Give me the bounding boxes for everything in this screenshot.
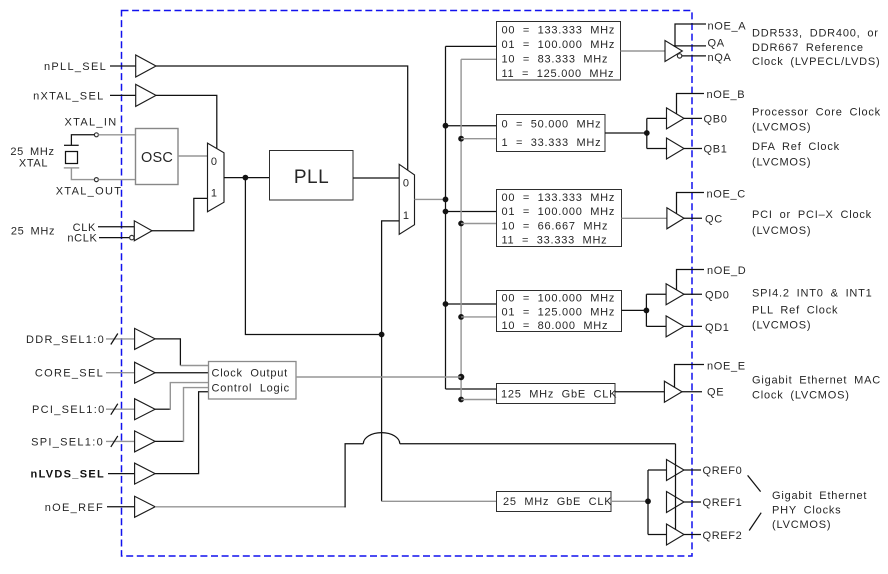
bus slash DDR_SEL — [111, 334, 118, 345]
pad XTAL_OUT — [94, 178, 98, 182]
svg-text:10 = 80.000 MHz: 10 = 80.000 MHz — [502, 320, 609, 332]
svg-text:DDR667 Reference: DDR667 Reference — [752, 42, 864, 54]
note SPI ref clock — [752, 288, 873, 332]
svg-text:PLL: PLL — [294, 167, 329, 188]
buffer QREF0 — [667, 460, 685, 481]
junction ref clock node — [243, 175, 249, 181]
wire DDR_SEL stub — [106, 338, 135, 340]
buffer QB0 — [667, 108, 685, 129]
wire CORE_SEL stub — [106, 372, 135, 374]
svg-text:00 = 100.000 MHz: 00 = 100.000 MHz — [502, 293, 616, 305]
note gigabit PHY clocks — [772, 490, 867, 531]
junction on bypass bus — [379, 332, 385, 338]
wire clock bus to divider D — [446, 303, 498, 305]
svg-text:01 = 125.000 MHz: 01 = 125.000 MHz — [502, 306, 616, 318]
svg-text:SPI_SEL1:0: SPI_SEL1:0 — [31, 436, 104, 448]
buffer QC — [667, 208, 684, 229]
note gigabit MAC clock — [752, 374, 881, 401]
svg-text:25 MHz: 25 MHz — [10, 146, 54, 158]
note DFA ref clock — [752, 141, 840, 168]
wire CLK buffer to ref-mux input 1 — [152, 198, 208, 230]
wire QA out — [674, 45, 707, 47]
svg-text:QREF2: QREF2 — [703, 530, 743, 542]
divider table E 125 MHz GbE CLK — [497, 384, 618, 404]
wire select bus to divider A — [461, 58, 497, 60]
chip boundary dashed border — [122, 11, 693, 557]
svg-text:00 = 133.333 MHz: 00 = 133.333 MHz — [502, 192, 616, 204]
wire nOE_REF stub — [107, 506, 135, 508]
wire nOE_C — [677, 193, 705, 214]
wire PLL to output-mux input 0 — [353, 177, 399, 179]
buffer QA/nQA — [665, 41, 682, 62]
svg-text:nPLL_SEL: nPLL_SEL — [44, 61, 107, 73]
svg-text:QB0: QB0 — [704, 113, 728, 125]
note PCI clock — [752, 209, 872, 237]
svg-text:nOE_C: nOE_C — [707, 188, 746, 200]
svg-text:Gigabit Ethernet MAC: Gigabit Ethernet MAC — [752, 374, 881, 386]
buffer CLK/nCLK — [134, 221, 152, 241]
divider table F 25 MHz GbE CLK — [497, 492, 613, 512]
svg-text:Processor Core Clock: Processor Core Clock — [752, 107, 881, 119]
junction clock bus mux feed — [443, 197, 449, 203]
wire clock bus to divider A — [446, 45, 498, 47]
svg-text:(LVCMOS): (LVCMOS) — [752, 225, 811, 237]
wire QREF2 out — [684, 534, 701, 536]
svg-text:25 MHz: 25 MHz — [11, 225, 55, 237]
divider table A — [497, 22, 621, 81]
wire clock bus to divider C — [446, 211, 498, 213]
wire XTAL_IN to crystal — [71, 135, 94, 146]
wire divider A to buffer QA — [621, 50, 666, 52]
inversion bubble nCLK — [130, 235, 134, 239]
wire ref clock down to bypass bus — [245, 178, 381, 335]
svg-text:CORE_SEL: CORE_SEL — [35, 368, 104, 380]
pad XTAL_IN — [94, 133, 98, 137]
svg-text:00 = 133.333 MHz: 00 = 133.333 MHz — [502, 24, 616, 36]
PLL U1 — [270, 151, 354, 201]
svg-text:1: 1 — [211, 188, 218, 200]
wire SPI_SEL stub — [106, 440, 135, 442]
svg-text:DDR533, DDR400, or: DDR533, DDR400, or — [752, 27, 879, 39]
wire PCI_SEL stub — [106, 408, 135, 410]
svg-text:QA: QA — [708, 38, 725, 50]
wire XTAL_OUT to OSC — [98, 179, 135, 181]
wire divider C to buffer QC — [622, 217, 667, 219]
junction select bus C — [458, 221, 464, 227]
junction select bus D — [458, 314, 464, 320]
svg-text:Clock Output: Clock Output — [212, 368, 288, 380]
svg-text:nOE_A: nOE_A — [708, 21, 747, 33]
svg-text:QB1: QB1 — [704, 144, 728, 156]
wire nCLK stub — [99, 237, 129, 239]
wire OSC to ref-mux input 0 — [178, 155, 208, 157]
svg-text:QD0: QD0 — [705, 289, 730, 301]
wire nOE_A — [675, 24, 706, 47]
svg-text:(LVCMOS): (LVCMOS) — [752, 156, 811, 168]
wire nQA out — [682, 55, 706, 57]
junction select bus B — [458, 136, 464, 142]
buffer PCI_SEL — [135, 399, 156, 420]
svg-text:0: 0 — [403, 178, 410, 190]
svg-text:PCI_SEL1:0: PCI_SEL1:0 — [32, 404, 106, 416]
wire divider F to QREF buffers — [611, 500, 648, 502]
svg-text:10 = 83.333 MHz: 10 = 83.333 MHz — [502, 53, 609, 65]
buffer QD1 — [666, 316, 684, 337]
buffer CORE_SEL — [135, 362, 156, 383]
svg-text:XTAL: XTAL — [19, 157, 48, 169]
wire QC out — [684, 217, 702, 219]
wire XTAL_IN to OSC — [98, 134, 135, 136]
svg-text:nXTAL_SEL: nXTAL_SEL — [33, 90, 104, 102]
buffer QB1 — [667, 138, 685, 159]
svg-text:10 = 66.667 MHz: 10 = 66.667 MHz — [502, 220, 609, 232]
svg-text:1: 1 — [403, 210, 410, 222]
bus slash PCI_SEL — [111, 404, 118, 415]
wire nLVDS_SEL stub — [108, 473, 135, 475]
divider table B — [497, 115, 606, 152]
buffer DDR_SEL — [135, 328, 156, 349]
svg-text:DDR_SEL1:0: DDR_SEL1:0 — [26, 334, 105, 346]
svg-text:11 = 33.333 MHz: 11 = 33.333 MHz — [502, 235, 608, 247]
svg-text:nOE_E: nOE_E — [707, 360, 746, 372]
wire ref-mux output to PLL — [224, 177, 270, 179]
wire select bus to divider B — [461, 138, 497, 140]
svg-text:XTAL_OUT: XTAL_OUT — [56, 186, 122, 198]
wire nPLL_SEL stub — [110, 65, 136, 67]
wire clock bus to divider E — [446, 388, 498, 390]
svg-text:SPI4.2 INT0 & INT1: SPI4.2 INT0 & INT1 — [752, 288, 873, 300]
svg-text:11 = 125.000 MHz: 11 = 125.000 MHz — [502, 68, 615, 80]
svg-text:QREF1: QREF1 — [703, 497, 743, 509]
wire QD0 out — [684, 293, 702, 295]
junction select bus E — [458, 397, 464, 403]
wire nOE_REF down back of QREF buffers — [675, 444, 677, 530]
buffer QE — [664, 381, 682, 402]
svg-text:(LVCMOS): (LVCMOS) — [752, 320, 811, 332]
svg-text:QD1: QD1 — [705, 322, 730, 334]
brace QREF group lower — [749, 513, 761, 531]
svg-text:Gigabit Ethernet: Gigabit Ethernet — [772, 490, 867, 502]
wire CLK stub — [98, 226, 134, 228]
wire nOE_REF run — [155, 506, 346, 508]
note DDR reference clock — [752, 27, 880, 68]
ref mux (XTAL/CLK select) — [208, 143, 225, 212]
wire divider B to QB buffers — [605, 132, 647, 134]
wire QD1 out — [684, 325, 702, 327]
junction clock bus D — [443, 301, 449, 307]
wire clock bus to divider B — [446, 125, 498, 127]
wire CORE_SEL to control logic — [155, 372, 209, 374]
wire control logic to select bus — [296, 376, 461, 378]
svg-text:nLVDS_SEL: nLVDS_SEL — [31, 469, 105, 481]
wire select bus to divider C — [461, 223, 497, 225]
svg-text:nQA: nQA — [708, 52, 732, 64]
wire SPI_SEL to control logic — [155, 440, 183, 442]
svg-text:OSC: OSC — [141, 150, 173, 166]
svg-text:PCI or PCI–X Clock: PCI or PCI–X Clock — [752, 209, 872, 221]
svg-text:PHY Clocks: PHY Clocks — [772, 505, 841, 517]
junction select bus control feed — [458, 374, 464, 380]
wire hop over bypass bus — [363, 433, 400, 444]
wire crystal to XTAL_OUT — [71, 168, 94, 180]
svg-text:Clock (LVCMOS): Clock (LVCMOS) — [752, 389, 850, 401]
svg-text:nOE_B: nOE_B — [707, 89, 746, 101]
wire nOE_D — [677, 270, 705, 291]
buffer QREF2 — [667, 524, 685, 545]
wire QREF0 out — [684, 469, 701, 471]
control block Clock Output Control Logic — [209, 362, 297, 400]
svg-text:Control Logic: Control Logic — [212, 382, 290, 394]
junction clock bus B — [443, 123, 449, 129]
buffer QREF1 — [667, 492, 685, 513]
svg-text:01 = 100.000 MHz: 01 = 100.000 MHz — [502, 206, 616, 218]
svg-text:XTAL_IN: XTAL_IN — [65, 117, 118, 129]
svg-text:(LVCMOS): (LVCMOS) — [772, 519, 831, 531]
crystal 25 MHz XTAL — [64, 144, 79, 146]
svg-text:QC: QC — [705, 213, 723, 225]
svg-text:0 = 50.000 MHz: 0 = 50.000 MHz — [502, 119, 602, 131]
svg-text:25 MHz GbE CLK: 25 MHz GbE CLK — [503, 496, 612, 508]
svg-text:nOE_REF: nOE_REF — [45, 502, 104, 514]
wire nOE_REF to QREF buffers — [400, 443, 676, 445]
divider table D — [497, 291, 622, 333]
wire nLVDS_SEL to control logic — [155, 392, 209, 474]
wire divider E to buffer QE — [615, 391, 664, 393]
wire select bus to divider D — [461, 316, 497, 318]
svg-text:01 = 100.000 MHz: 01 = 100.000 MHz — [502, 39, 616, 51]
wire QB1 out — [684, 148, 702, 150]
svg-text:(LVCMOS): (LVCMOS) — [752, 121, 811, 133]
svg-text:0: 0 — [211, 156, 218, 168]
wire output-mux to clock bus — [415, 198, 446, 200]
wire DDR_SEL to control logic — [155, 339, 180, 366]
clock bus vertical — [445, 46, 447, 389]
oscillator OSC — [136, 129, 179, 185]
wire QE out — [682, 391, 702, 393]
svg-text:QE: QE — [707, 386, 724, 398]
wire nXTAL_SEL to ref-mux select — [156, 95, 217, 149]
wire QB0 out — [684, 117, 702, 119]
select bus vertical (gray) — [460, 59, 462, 399]
output mux (PLL bypass select) — [399, 164, 414, 234]
buffer SPI_SEL — [135, 431, 156, 452]
svg-text:1 = 33.333 MHz: 1 = 33.333 MHz — [502, 137, 602, 149]
wire PCI_SEL to control logic — [155, 408, 170, 410]
note processor core clock — [752, 107, 881, 134]
wire bypass to 25MHz GbE divider — [382, 500, 497, 502]
svg-text:Clock (LVPECL/LVDS): Clock (LVPECL/LVDS) — [752, 56, 880, 68]
buffer nOE_REF — [135, 496, 156, 517]
bus slash SPI_SEL — [111, 436, 118, 447]
brace QREF group upper — [748, 475, 761, 491]
buffer nLVDS_SEL — [135, 463, 156, 484]
svg-text:nCLK: nCLK — [67, 233, 97, 245]
inversion bubble nQA — [677, 54, 681, 58]
buffer QD0 — [666, 284, 684, 305]
buffer nPLL_SEL — [136, 55, 156, 77]
svg-text:PLL Ref Clock: PLL Ref Clock — [752, 304, 838, 316]
buffer nXTAL_SEL — [136, 84, 156, 106]
wire nXTAL_SEL stub — [110, 94, 136, 96]
svg-text:QREF0: QREF0 — [703, 465, 743, 477]
wire nOE_B — [677, 94, 705, 115]
wire select bus to divider E — [461, 399, 497, 401]
wire bypass bus into output-mux input 1 — [382, 221, 400, 501]
wire nPLL_SEL to output-mux select — [156, 66, 408, 170]
wire divider D to QD buffers — [622, 309, 647, 311]
wire nOE_E — [675, 365, 705, 388]
svg-text:DFA Ref Clock: DFA Ref Clock — [752, 141, 840, 153]
svg-text:125 MHz GbE CLK: 125 MHz GbE CLK — [501, 388, 617, 400]
divider table C — [497, 190, 622, 247]
junction clock bus C — [443, 209, 449, 215]
svg-text:nOE_D: nOE_D — [707, 265, 746, 277]
wire QREF1 out — [684, 501, 701, 503]
